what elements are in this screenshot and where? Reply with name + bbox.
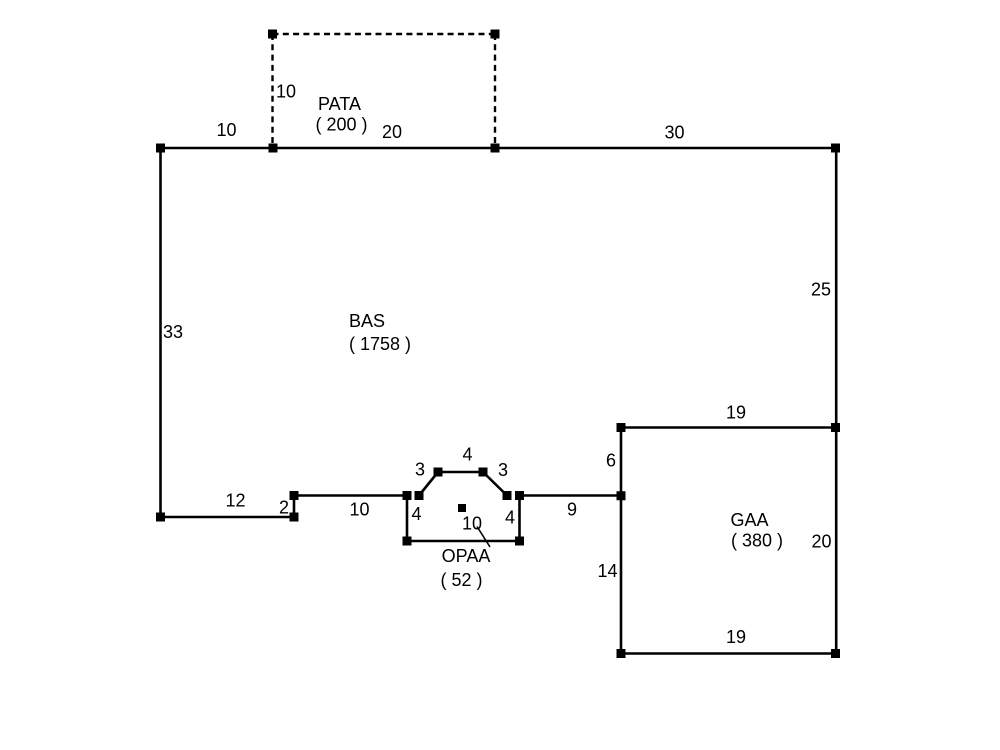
wire: BAS right boundary (25) [835, 148, 838, 428]
node: OPAA top-right vertex [479, 468, 488, 477]
svg-text:6: 6 [606, 451, 616, 471]
wire: OPAA bottom (10) [407, 540, 520, 543]
node: junction GAA left / segment 9 [617, 491, 626, 500]
wire: OPAA right chamfer (3) [483, 472, 507, 496]
node: BAS top-left corner [156, 144, 165, 153]
svg-text:10: 10 [462, 514, 482, 534]
node: OPAA chamfer base right [503, 491, 512, 500]
svg-text:2: 2 [279, 498, 289, 518]
node: OPAA chamfer base left [415, 491, 424, 500]
svg-text:PATA: PATA [318, 94, 361, 114]
node: GAA top-right corner [831, 423, 840, 432]
wire: BAS left boundary (33) [159, 148, 162, 517]
svg-text:20: 20 [382, 122, 402, 142]
wire: GAA top edge (19) [621, 426, 836, 429]
node: OPAA bottom-left corner [403, 537, 412, 546]
node: step bottom vertex [290, 513, 299, 522]
node: OPAA bottom-right corner [515, 537, 524, 546]
node: OPAA left junction [403, 491, 412, 500]
svg-text:19: 19 [726, 627, 746, 647]
wire: OPAA left chamfer (3) [419, 472, 438, 496]
node: GAA top-left corner [617, 423, 626, 432]
svg-text:GAA: GAA [730, 510, 768, 530]
svg-text:4: 4 [505, 508, 515, 528]
svg-text:4: 4 [411, 504, 421, 524]
wire: GAA right edge (20) [835, 428, 838, 654]
svg-text:14: 14 [597, 561, 617, 581]
wire: OPAA right side (4) [518, 496, 521, 542]
svg-text:BAS: BAS [349, 311, 385, 331]
wire: horizontal segment (10) [294, 494, 407, 497]
wire: BAS top boundary (10 / 20 / 30) [161, 147, 837, 150]
svg-text:( 380 ): ( 380 ) [731, 531, 783, 551]
wire: GAA left edge (6 / 14) [620, 428, 623, 654]
node: junction top edge / PATA right [491, 144, 500, 153]
svg-text:9: 9 [567, 500, 577, 520]
wire: BAS bottom-left boundary (12) [161, 516, 295, 519]
wire: OPAA left side (4) [406, 496, 409, 542]
node: GAA bottom-right corner [831, 649, 840, 658]
svg-text:12: 12 [225, 491, 245, 511]
wire: OPAA top (4) [438, 471, 483, 474]
node: GAA bottom-left corner [617, 649, 626, 658]
wire: leader line to OPAA label [477, 527, 490, 548]
svg-text:( 52 ): ( 52 ) [440, 570, 482, 590]
wire: horizontal segment (9) [520, 494, 622, 497]
svg-text:10: 10 [216, 120, 236, 140]
svg-text:20: 20 [811, 532, 831, 552]
svg-text:OPAA: OPAA [442, 546, 491, 566]
svg-text:( 1758 ): ( 1758 ) [349, 334, 411, 354]
node: OPAA top-left vertex [434, 468, 443, 477]
svg-text:4: 4 [462, 445, 472, 465]
node: BAS bottom-left corner [156, 513, 165, 522]
wire: dashed PATA left edge (10) [271, 34, 273, 148]
svg-text:3: 3 [498, 460, 508, 480]
node: PATA dashed top-left corner [268, 30, 277, 39]
wire: GAA bottom edge (19) [621, 652, 836, 655]
svg-text:33: 33 [163, 322, 183, 342]
svg-text:( 200 ): ( 200 ) [315, 115, 367, 135]
node: PATA dashed top-right corner [491, 30, 500, 39]
svg-text:3: 3 [415, 460, 425, 480]
wire: step segment (2) [293, 496, 296, 518]
svg-text:10: 10 [349, 500, 369, 520]
wire: dashed PATA top edge [273, 33, 496, 35]
node: junction top edge / PATA left [269, 144, 278, 153]
svg-text:25: 25 [811, 280, 831, 300]
node: BAS top-right corner [831, 144, 840, 153]
node: step top vertex [290, 491, 299, 500]
svg-text:19: 19 [726, 403, 746, 423]
svg-text:10: 10 [276, 82, 296, 102]
node: interior point 10 [458, 504, 466, 512]
wire: dashed PATA right edge [494, 34, 496, 148]
node: OPAA right junction [515, 491, 524, 500]
svg-text:30: 30 [664, 123, 684, 143]
